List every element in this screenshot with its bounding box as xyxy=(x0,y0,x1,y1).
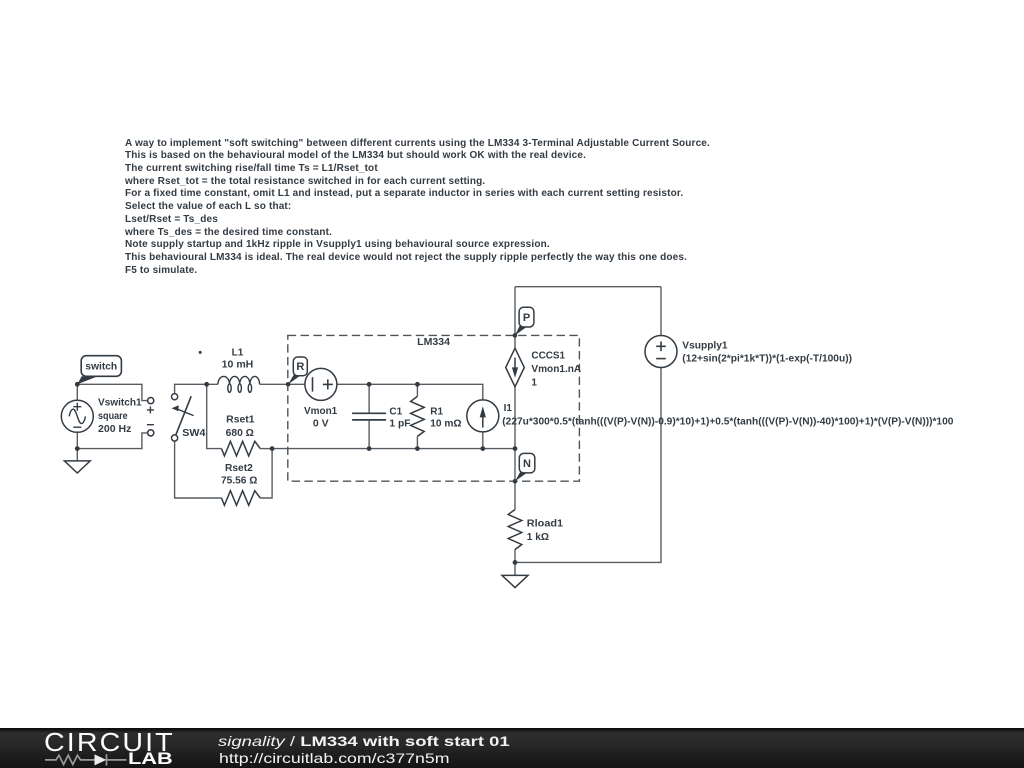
svg-text:CCCS1: CCCS1 xyxy=(531,350,565,361)
label Vmon1 value xyxy=(304,406,338,430)
wire Vsupply1 bottom to ground rail xyxy=(515,368,661,563)
voltage source Vsupply1 xyxy=(645,336,677,368)
svg-text:1 kΩ: 1 kΩ xyxy=(527,532,549,543)
svg-text:10 mH: 10 mH xyxy=(222,360,254,371)
wire C1 top stub xyxy=(368,384,370,413)
label C1 value xyxy=(389,406,410,429)
svg-text:Vmon1.nA: Vmon1.nA xyxy=(531,364,581,375)
ground symbol left xyxy=(64,461,90,473)
resistor Rset1 xyxy=(222,441,261,456)
svg-text:0 V: 0 V xyxy=(313,418,329,429)
CircuitLab logo resistor-diode glyph xyxy=(45,752,127,768)
node flag switch xyxy=(77,356,121,385)
wire Vsupply1 top stub xyxy=(660,287,662,336)
svg-text:square: square xyxy=(98,411,128,422)
label Rload1 value xyxy=(527,518,564,543)
svg-text:P: P xyxy=(523,312,530,324)
wire Vmon1 to I1 corner xyxy=(337,384,483,399)
current source I1 xyxy=(467,400,499,432)
junction Rset1 / Rset2 xyxy=(270,446,275,451)
wire Rset1 right to junction xyxy=(260,448,272,450)
CircuitLab logo word CIRCUIT xyxy=(44,727,175,758)
junction C1 bottom xyxy=(367,446,372,451)
svg-text:Rset1: Rset1 xyxy=(226,415,255,426)
CircuitLab logo word LAB xyxy=(128,750,173,768)
wire bottom rail inside LM334 xyxy=(272,448,515,450)
dependent source CCCS1 xyxy=(506,348,525,387)
wire ground stub right xyxy=(514,562,516,575)
footer url line xyxy=(219,750,450,766)
svg-text:switch: switch xyxy=(85,362,117,373)
wire junction down to Rset2 right xyxy=(260,449,272,498)
wire R1 bottom stub xyxy=(416,436,418,448)
resistor Rset2 xyxy=(222,491,261,506)
label Vsupply1 value xyxy=(682,340,852,364)
junction R1 bottom xyxy=(415,446,420,451)
svg-text:I1: I1 xyxy=(504,403,513,414)
label Rset1 value xyxy=(226,415,255,439)
svg-text:75.56 Ω: 75.56 Ω xyxy=(221,476,257,487)
ground symbol right xyxy=(502,575,528,587)
svg-text:SW4: SW4 xyxy=(182,428,206,439)
svg-text:Vswitch1: Vswitch1 xyxy=(98,398,142,409)
capacitor C1 xyxy=(352,413,386,420)
svg-text:R: R xyxy=(296,361,304,373)
label Rset2 value xyxy=(221,463,257,486)
wire I1 bottom stub xyxy=(482,432,484,448)
wire Rload1 bottom stub xyxy=(514,550,516,563)
wire Vswitch1 top stub xyxy=(76,384,78,400)
wire ground stub left xyxy=(76,449,78,461)
junction SW4 / L1 / Rset1 xyxy=(204,382,209,387)
svg-text:L1: L1 xyxy=(232,348,244,359)
junction Vswitch1 bottom xyxy=(75,446,80,451)
svg-text:680 Ω: 680 Ω xyxy=(226,428,254,439)
svg-text:1 pF: 1 pF xyxy=(389,419,410,430)
node R flag xyxy=(288,357,307,384)
schematic annotation note text xyxy=(125,138,710,278)
junction C1 top xyxy=(367,382,372,387)
svg-text:Rload1: Rload1 xyxy=(527,518,564,529)
wire rail down to CCCS1 (node P) xyxy=(514,287,516,349)
svg-text:Rset2: Rset2 xyxy=(225,463,253,474)
wire top supply rail xyxy=(515,286,661,288)
junction Rload1 / Vsupply1 ground rail xyxy=(513,560,518,565)
wire Vswitch1 bottom stub xyxy=(76,432,78,448)
logo diode triangle xyxy=(95,755,107,766)
wire SW4 bottom to Rset2 left xyxy=(175,441,222,498)
svg-text:N: N xyxy=(523,458,531,470)
wire L1 to Vmon1 (node R) xyxy=(260,383,305,385)
node P flag xyxy=(515,307,534,335)
junction I1 bottom xyxy=(480,446,485,451)
svg-text:C1: C1 xyxy=(389,406,402,417)
LM334 subcircuit dashed box xyxy=(288,335,580,481)
svg-text:Vmon1: Vmon1 xyxy=(304,406,338,417)
wire CCCS1 down through node N to Rload1 xyxy=(514,387,516,510)
wire R1 top stub xyxy=(416,384,418,396)
svg-text:(227u*300*0.5*(tanh(((V(P)-V(N: (227u*300*0.5*(tanh(((V(P)-V(N))-0.9)*10… xyxy=(502,416,954,427)
wire C1 bottom stub xyxy=(368,420,370,449)
svg-text:R1: R1 xyxy=(430,406,443,417)
voltage source Vmon1 (0V ammeter) xyxy=(305,368,337,400)
label CCCS1 value xyxy=(531,350,581,388)
logo resistor zigzag and wire xyxy=(45,754,127,765)
footer title line xyxy=(218,733,510,749)
resistor R1 xyxy=(411,396,425,436)
svg-text:200 Hz: 200 Hz xyxy=(98,424,131,435)
wire top rail to SW4 xyxy=(175,384,218,393)
label I1 value xyxy=(502,403,954,428)
node N flag xyxy=(515,453,535,481)
wire branch down to Rset1 xyxy=(207,384,222,448)
svg-text:10 mΩ: 10 mΩ xyxy=(430,419,461,430)
svg-text:Vsupply1: Vsupply1 xyxy=(682,340,728,351)
voltage source Vswitch1 xyxy=(61,398,154,437)
label R1 value xyxy=(430,406,461,429)
svg-text:(12+sin(2*pi*1k*T))*(1-exp(-T/: (12+sin(2*pi*1k*T))*(1-exp(-T/100u)) xyxy=(682,354,852,365)
inductor L1 xyxy=(218,376,260,392)
junction R1 top xyxy=(415,382,420,387)
label Vswitch1 value xyxy=(98,398,142,436)
svg-text:1: 1 xyxy=(531,377,537,388)
label L1 value xyxy=(222,348,254,371)
svg-text:LM334: LM334 xyxy=(417,337,450,348)
wire Vswitch1 bottom loop xyxy=(77,433,147,449)
resistor Rload1 xyxy=(508,510,522,550)
junction switch node xyxy=(75,382,80,387)
wire Vswitch1 top loop xyxy=(77,384,147,400)
junction CCCS1 bottom rail xyxy=(513,446,518,451)
switch SW4 xyxy=(172,351,202,441)
